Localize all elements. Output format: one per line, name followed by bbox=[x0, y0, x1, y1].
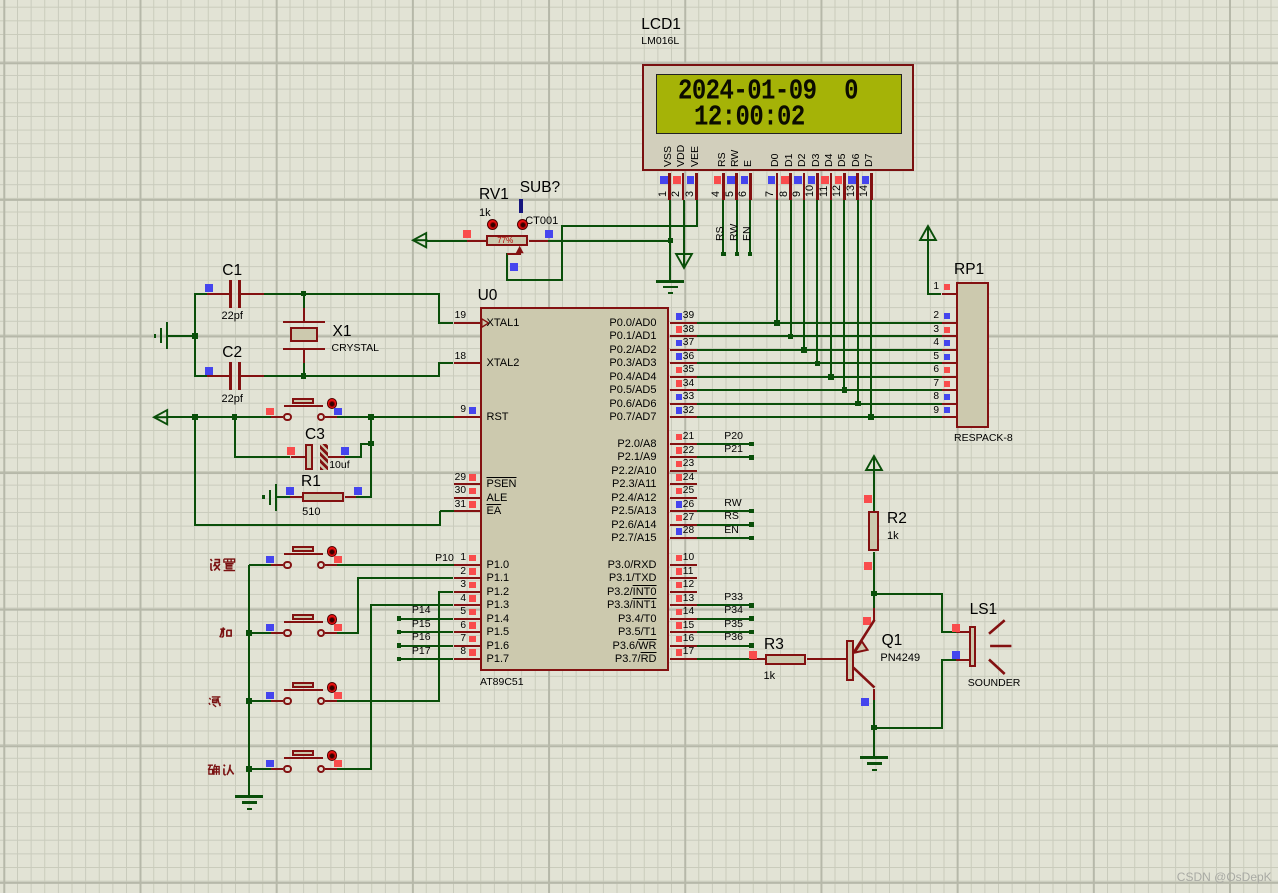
resistor R1 value label bbox=[302, 507, 320, 518]
transistor Q1 bbox=[845, 615, 880, 695]
pin state square bbox=[676, 515, 683, 522]
XTAL1 clock arrow bbox=[481, 318, 490, 328]
button actuator bbox=[327, 398, 338, 409]
wire button bus bbox=[248, 565, 250, 795]
terminal arrow left bbox=[153, 409, 171, 425]
pin state square bbox=[469, 622, 476, 629]
pin 8 number bbox=[386, 647, 466, 657]
wire P0.1 bus bbox=[697, 335, 942, 337]
wire bbox=[927, 241, 929, 295]
pin name bbox=[577, 641, 657, 652]
wire bbox=[345, 456, 362, 458]
pin 18 number bbox=[386, 352, 466, 362]
RP1 pin 4 stub bbox=[942, 349, 956, 351]
wire pot to VSS net bbox=[548, 240, 670, 242]
pot RV1 body bbox=[486, 235, 528, 246]
label 设置 bbox=[208, 558, 237, 572]
wire to P1.0 bbox=[337, 564, 454, 566]
ground bbox=[275, 484, 277, 511]
pin name bbox=[577, 439, 657, 450]
LCD pin 4 name label bbox=[717, 152, 728, 167]
net label RW bbox=[724, 498, 741, 509]
pin 16 stub bbox=[670, 645, 698, 647]
pin 28 stub bbox=[670, 537, 698, 539]
pin state square bbox=[676, 340, 683, 347]
wire LCD RW bbox=[736, 200, 738, 254]
pin 4 number bbox=[386, 594, 466, 604]
resistor R2 value label bbox=[887, 531, 899, 542]
pin state square bbox=[676, 488, 683, 495]
wire net P36 bbox=[697, 645, 752, 647]
wire bbox=[264, 293, 439, 295]
wire LCD D2 bbox=[803, 200, 805, 350]
wire bbox=[337, 768, 372, 770]
LCD pin 10 stub bbox=[816, 173, 819, 201]
LCD pin 8 name label bbox=[784, 154, 795, 167]
SUB? tick bbox=[519, 199, 523, 214]
RP1 pin 8 number bbox=[859, 392, 939, 402]
LCD pin 2 state square bbox=[673, 176, 681, 184]
net label RS bbox=[724, 511, 739, 522]
LCD pin 6 name label bbox=[743, 160, 754, 167]
pin 22 stub bbox=[670, 456, 698, 458]
wire LCD RS bbox=[722, 200, 724, 254]
net label P34 bbox=[724, 605, 743, 616]
LCD pin 11 number bbox=[819, 185, 830, 196]
pin name bbox=[577, 372, 657, 383]
pin 23 stub bbox=[670, 470, 698, 472]
LCD pin 10 name label bbox=[811, 154, 822, 167]
wire end dot bbox=[749, 536, 754, 541]
resistor R2 body bbox=[868, 511, 879, 551]
capacitor C3 left pin bbox=[291, 456, 306, 458]
RP1 pin 1 number bbox=[859, 282, 939, 292]
button terminal bbox=[283, 629, 292, 638]
RP1 pin 2 stub bbox=[942, 322, 956, 324]
pin 8 P1.7 stub bbox=[454, 658, 480, 660]
wire end dot bbox=[748, 252, 753, 257]
LCD pin 12 number bbox=[832, 184, 843, 196]
pin state square bbox=[676, 555, 683, 562]
pin 5 number bbox=[386, 607, 466, 617]
pin name bbox=[577, 600, 657, 611]
wire bbox=[360, 443, 362, 458]
respack RP1 body bbox=[956, 282, 989, 428]
wire bbox=[264, 375, 439, 377]
net label EN bbox=[742, 226, 753, 241]
pin 21 number bbox=[683, 432, 694, 442]
LCD pin 14 number bbox=[859, 184, 870, 196]
capacitor C1 bbox=[0, 0, 1278, 1]
pin state square bbox=[676, 595, 683, 602]
net label P33 bbox=[724, 592, 743, 603]
wire bbox=[874, 593, 943, 595]
transistor Q1 part label bbox=[880, 653, 920, 664]
pin name bbox=[577, 493, 657, 504]
button terminal bbox=[283, 561, 292, 570]
pin state square bbox=[944, 407, 950, 413]
wire RST row bbox=[167, 416, 271, 418]
LCD pin 1 name label bbox=[663, 146, 674, 167]
wire to P1.1 bbox=[358, 577, 453, 579]
pin state square bbox=[864, 562, 872, 570]
transistor Q1 collector pin lower bbox=[873, 689, 875, 700]
pin state square bbox=[469, 407, 476, 414]
LCD pin 11 state square bbox=[821, 176, 829, 184]
pin state square bbox=[469, 555, 476, 562]
pin 9 RST stub bbox=[454, 416, 480, 418]
wire end dot bbox=[397, 657, 402, 662]
pin 39 number bbox=[683, 311, 694, 321]
pin state square bbox=[469, 488, 476, 495]
pin state square bbox=[944, 367, 950, 373]
wire P3.7 to R3 bbox=[697, 658, 751, 660]
wire LCD D4 bbox=[830, 200, 832, 377]
respack RP1 ref label bbox=[954, 262, 984, 278]
pin state square bbox=[676, 461, 683, 468]
pin name P1.2 bbox=[487, 587, 510, 598]
pin name ALE bbox=[487, 493, 508, 504]
net label RS bbox=[715, 226, 726, 241]
capacitor C2 bbox=[0, 0, 1278, 1]
pin name RST bbox=[487, 412, 509, 423]
pin name bbox=[577, 627, 657, 638]
pin 28 number bbox=[683, 526, 694, 536]
pin 30 number bbox=[386, 486, 466, 496]
junction bbox=[668, 238, 674, 244]
LCD pin 13 state square bbox=[848, 176, 856, 184]
wire P0.4 bus bbox=[697, 376, 942, 378]
wire bbox=[873, 471, 875, 511]
RP1 pin 9 number bbox=[859, 406, 939, 416]
wire net P34 bbox=[697, 618, 752, 620]
pin 26 stub bbox=[670, 510, 698, 512]
RP1 pin 4 number bbox=[859, 338, 939, 348]
pin 26 number bbox=[683, 500, 694, 510]
resistor R2 ref label bbox=[887, 511, 907, 527]
pin name bbox=[577, 614, 657, 625]
respack RP1 value label bbox=[954, 433, 1013, 444]
pin name P1.0 bbox=[487, 560, 510, 571]
push button bbox=[0, 0, 1278, 1]
wire bbox=[303, 294, 305, 308]
button terminal bbox=[317, 561, 326, 570]
pin 24 number bbox=[683, 473, 694, 483]
pin 11 stub bbox=[670, 577, 698, 579]
pin 38 stub bbox=[670, 335, 698, 337]
pin name P1.5 bbox=[487, 627, 510, 638]
sounder LS1 body bbox=[969, 626, 977, 666]
wire bbox=[356, 496, 371, 498]
pin 19 number bbox=[386, 311, 466, 321]
RP1 pin 6 stub bbox=[942, 376, 956, 378]
wire bbox=[277, 496, 290, 498]
pin 32 number bbox=[683, 406, 694, 416]
junction bbox=[815, 361, 821, 367]
wire LCD D7 bbox=[870, 200, 872, 417]
pot adjust button bbox=[517, 219, 528, 230]
capacitor C2 ref label bbox=[222, 345, 242, 361]
crystal X1 bbox=[0, 0, 1278, 1]
pin name XTAL2 bbox=[487, 358, 520, 369]
LCD pin 8 state square bbox=[781, 176, 789, 184]
resistor R3 ref label bbox=[764, 637, 784, 653]
button terminal bbox=[283, 765, 292, 774]
junction bbox=[855, 401, 861, 407]
pin 34 stub bbox=[670, 389, 698, 391]
wire bbox=[928, 293, 941, 295]
pin 15 number bbox=[683, 621, 694, 631]
wire bbox=[873, 594, 875, 610]
wire VSS bbox=[669, 200, 671, 240]
LCD pin 10 number bbox=[805, 184, 816, 196]
pin name bbox=[577, 587, 657, 598]
wire LCD EN bbox=[749, 200, 751, 254]
wire end dot bbox=[749, 522, 754, 527]
pin name bbox=[577, 533, 657, 544]
pin name bbox=[577, 358, 657, 369]
LCD pin 13 number bbox=[846, 184, 857, 196]
pin state square bbox=[266, 556, 274, 564]
crystal X1 value label bbox=[332, 343, 379, 354]
pin state square bbox=[469, 595, 476, 602]
LCD pin 14 name label bbox=[864, 154, 875, 167]
junction bbox=[301, 373, 307, 379]
net label P20 bbox=[724, 431, 743, 442]
push button bbox=[0, 0, 1278, 1]
wire net P20 bbox=[697, 443, 752, 445]
wire bbox=[303, 363, 305, 376]
wire bbox=[337, 700, 440, 702]
wire P0.2 bus bbox=[697, 349, 942, 351]
pin name bbox=[577, 654, 657, 665]
capacitor C3 ref label bbox=[305, 427, 325, 443]
wire net P35 bbox=[697, 631, 752, 633]
RP1 pin 7 stub bbox=[942, 389, 956, 391]
junction bbox=[871, 591, 877, 597]
wire to XTAL1 bbox=[439, 322, 454, 324]
LCD pin 1 number bbox=[658, 190, 669, 196]
sounder LS1 ref label bbox=[970, 602, 998, 618]
junction bbox=[368, 441, 374, 447]
wire bbox=[941, 659, 943, 729]
wire net P21 bbox=[697, 456, 752, 458]
pin 36 number bbox=[683, 352, 694, 362]
transistor Q1 base pin bbox=[807, 658, 846, 660]
pin 24 stub bbox=[670, 483, 698, 485]
pin name bbox=[577, 412, 657, 423]
pin 13 number bbox=[683, 594, 694, 604]
pin 7 P1.6 stub bbox=[454, 645, 480, 647]
pin 10 number bbox=[683, 553, 694, 563]
wire EA net vertical bbox=[194, 417, 196, 526]
wire bbox=[438, 293, 440, 324]
wire bbox=[337, 416, 454, 418]
button actuator bbox=[327, 682, 338, 693]
pin 37 number bbox=[683, 338, 694, 348]
pin name bbox=[577, 573, 657, 584]
RP1 pin 2 number bbox=[859, 311, 939, 321]
pin 29 PSEN stub bbox=[454, 483, 480, 485]
pin 16 number bbox=[683, 634, 694, 644]
pin state square bbox=[676, 447, 683, 454]
wire VEE to pot wiper bbox=[562, 225, 698, 227]
pin state square bbox=[864, 495, 872, 503]
pin state square bbox=[469, 609, 476, 616]
pin state square bbox=[469, 501, 476, 508]
LCD pin 3 number bbox=[685, 190, 696, 196]
pin state square bbox=[944, 327, 950, 333]
wire bbox=[873, 700, 875, 729]
pin 37 stub bbox=[670, 349, 698, 351]
pin state square bbox=[469, 636, 476, 643]
wire end dot bbox=[749, 616, 754, 621]
wire to XTAL2 bbox=[439, 362, 454, 364]
button terminal bbox=[317, 765, 326, 774]
button actuator bbox=[327, 614, 338, 625]
pin state square bbox=[205, 367, 213, 375]
net label P17 bbox=[412, 646, 431, 657]
wire bbox=[194, 293, 196, 377]
pin name P1.1 bbox=[487, 573, 510, 584]
pin state square bbox=[463, 230, 471, 238]
LCD pin 6 number bbox=[738, 190, 749, 196]
pin state square bbox=[334, 408, 342, 416]
LCD pin 3 stub bbox=[695, 173, 698, 201]
pin name bbox=[577, 506, 657, 517]
label SUB? bbox=[520, 180, 561, 196]
wire end dot bbox=[749, 455, 754, 460]
pin 2 P1.1 stub bbox=[454, 577, 480, 579]
junction bbox=[871, 725, 877, 731]
pin state square bbox=[863, 617, 871, 625]
junction bbox=[246, 630, 252, 636]
pin 14 stub bbox=[670, 618, 698, 620]
wire bbox=[168, 335, 195, 337]
capacitor C1 value label bbox=[222, 311, 243, 322]
LCD pin 7 stub bbox=[776, 173, 779, 201]
wire net P16 bbox=[399, 645, 453, 647]
wire bbox=[506, 279, 563, 281]
wire net P33 bbox=[697, 604, 752, 606]
wire VDD bbox=[683, 200, 685, 253]
wire end dot bbox=[749, 509, 754, 514]
wire P0.5 bus bbox=[697, 389, 942, 391]
junction bbox=[246, 766, 252, 772]
pin state square bbox=[676, 380, 683, 387]
pot RV1 value label bbox=[479, 208, 491, 219]
LCD pin 12 state square bbox=[835, 176, 843, 184]
pin state square bbox=[944, 381, 950, 387]
net label P15 bbox=[412, 619, 431, 630]
sounder LS1 value label bbox=[968, 678, 1021, 689]
pin state square bbox=[944, 340, 950, 346]
push button bbox=[0, 0, 1278, 1]
net label P21 bbox=[724, 444, 743, 455]
button terminal bbox=[317, 697, 326, 706]
wire net RW bbox=[697, 510, 752, 512]
resistor R3 value label bbox=[764, 671, 776, 682]
pin state square bbox=[266, 408, 274, 416]
net label P14 bbox=[412, 605, 431, 616]
RP1 pin 7 number bbox=[859, 379, 939, 389]
wire net RS bbox=[697, 524, 752, 526]
pin name bbox=[577, 466, 657, 477]
power terminal down bbox=[675, 253, 693, 270]
capacitor C3 value label bbox=[329, 460, 349, 471]
pin 1 number bbox=[386, 553, 466, 563]
LCD pin 5 state square bbox=[727, 176, 735, 184]
LCD screen bbox=[656, 74, 902, 134]
LCD pin 2 name label bbox=[676, 145, 687, 167]
pin state square bbox=[861, 698, 869, 706]
pin state square bbox=[676, 622, 683, 629]
wire end dot bbox=[721, 252, 726, 257]
pin state square bbox=[676, 609, 683, 616]
junction bbox=[774, 320, 780, 326]
label CT001 bbox=[525, 216, 558, 227]
LCD text line 1 bbox=[678, 78, 858, 107]
pin state square bbox=[676, 649, 683, 656]
pin state square bbox=[676, 501, 683, 508]
wire bbox=[370, 417, 372, 498]
net label RW bbox=[729, 223, 740, 240]
LCD pin 10 state square bbox=[808, 176, 816, 184]
wire P0.0 bus bbox=[697, 322, 942, 324]
pin state square bbox=[676, 434, 683, 441]
RP1 pin 8 stub bbox=[942, 403, 956, 405]
pot wiper wire bbox=[507, 253, 520, 255]
LCD pin 9 stub bbox=[803, 173, 806, 201]
wire end dot bbox=[749, 603, 754, 608]
junction bbox=[232, 414, 238, 420]
pin name PSEN bbox=[487, 479, 517, 490]
pin state square bbox=[287, 447, 295, 455]
pin name bbox=[577, 452, 657, 463]
wire end dot bbox=[735, 252, 740, 257]
junction bbox=[192, 333, 198, 339]
pin 33 stub bbox=[670, 403, 698, 405]
pot wiper pin bbox=[519, 248, 521, 255]
wire bbox=[361, 443, 372, 445]
LCD pin 1 state square bbox=[660, 176, 668, 184]
label 减 bbox=[208, 695, 224, 709]
net label P16 bbox=[412, 632, 431, 643]
LCD pin 5 name label bbox=[730, 150, 741, 167]
watermark bbox=[1177, 871, 1272, 883]
wire bbox=[941, 593, 943, 633]
sounder LS1 top pin bbox=[956, 631, 969, 633]
RP1 pin 5 stub bbox=[942, 362, 956, 364]
pin 4 P1.3 stub bbox=[454, 604, 480, 606]
pin state square bbox=[205, 284, 213, 292]
button terminal bbox=[317, 629, 326, 638]
pin state square bbox=[334, 556, 342, 564]
pin state square bbox=[334, 760, 342, 768]
pin name P1.7 bbox=[487, 654, 510, 665]
pin 34 number bbox=[683, 379, 694, 389]
pin state square bbox=[334, 692, 342, 700]
pin 23 number bbox=[683, 459, 694, 469]
pin 15 stub bbox=[670, 631, 698, 633]
wire VSS to ground bbox=[669, 240, 671, 280]
LCD pin 4 state square bbox=[714, 176, 722, 184]
pin state square bbox=[510, 263, 518, 271]
LCD pin 5 number bbox=[725, 190, 736, 196]
wire P0.7 bus bbox=[697, 416, 942, 418]
wire net P14 bbox=[399, 618, 453, 620]
wire bbox=[337, 632, 359, 634]
